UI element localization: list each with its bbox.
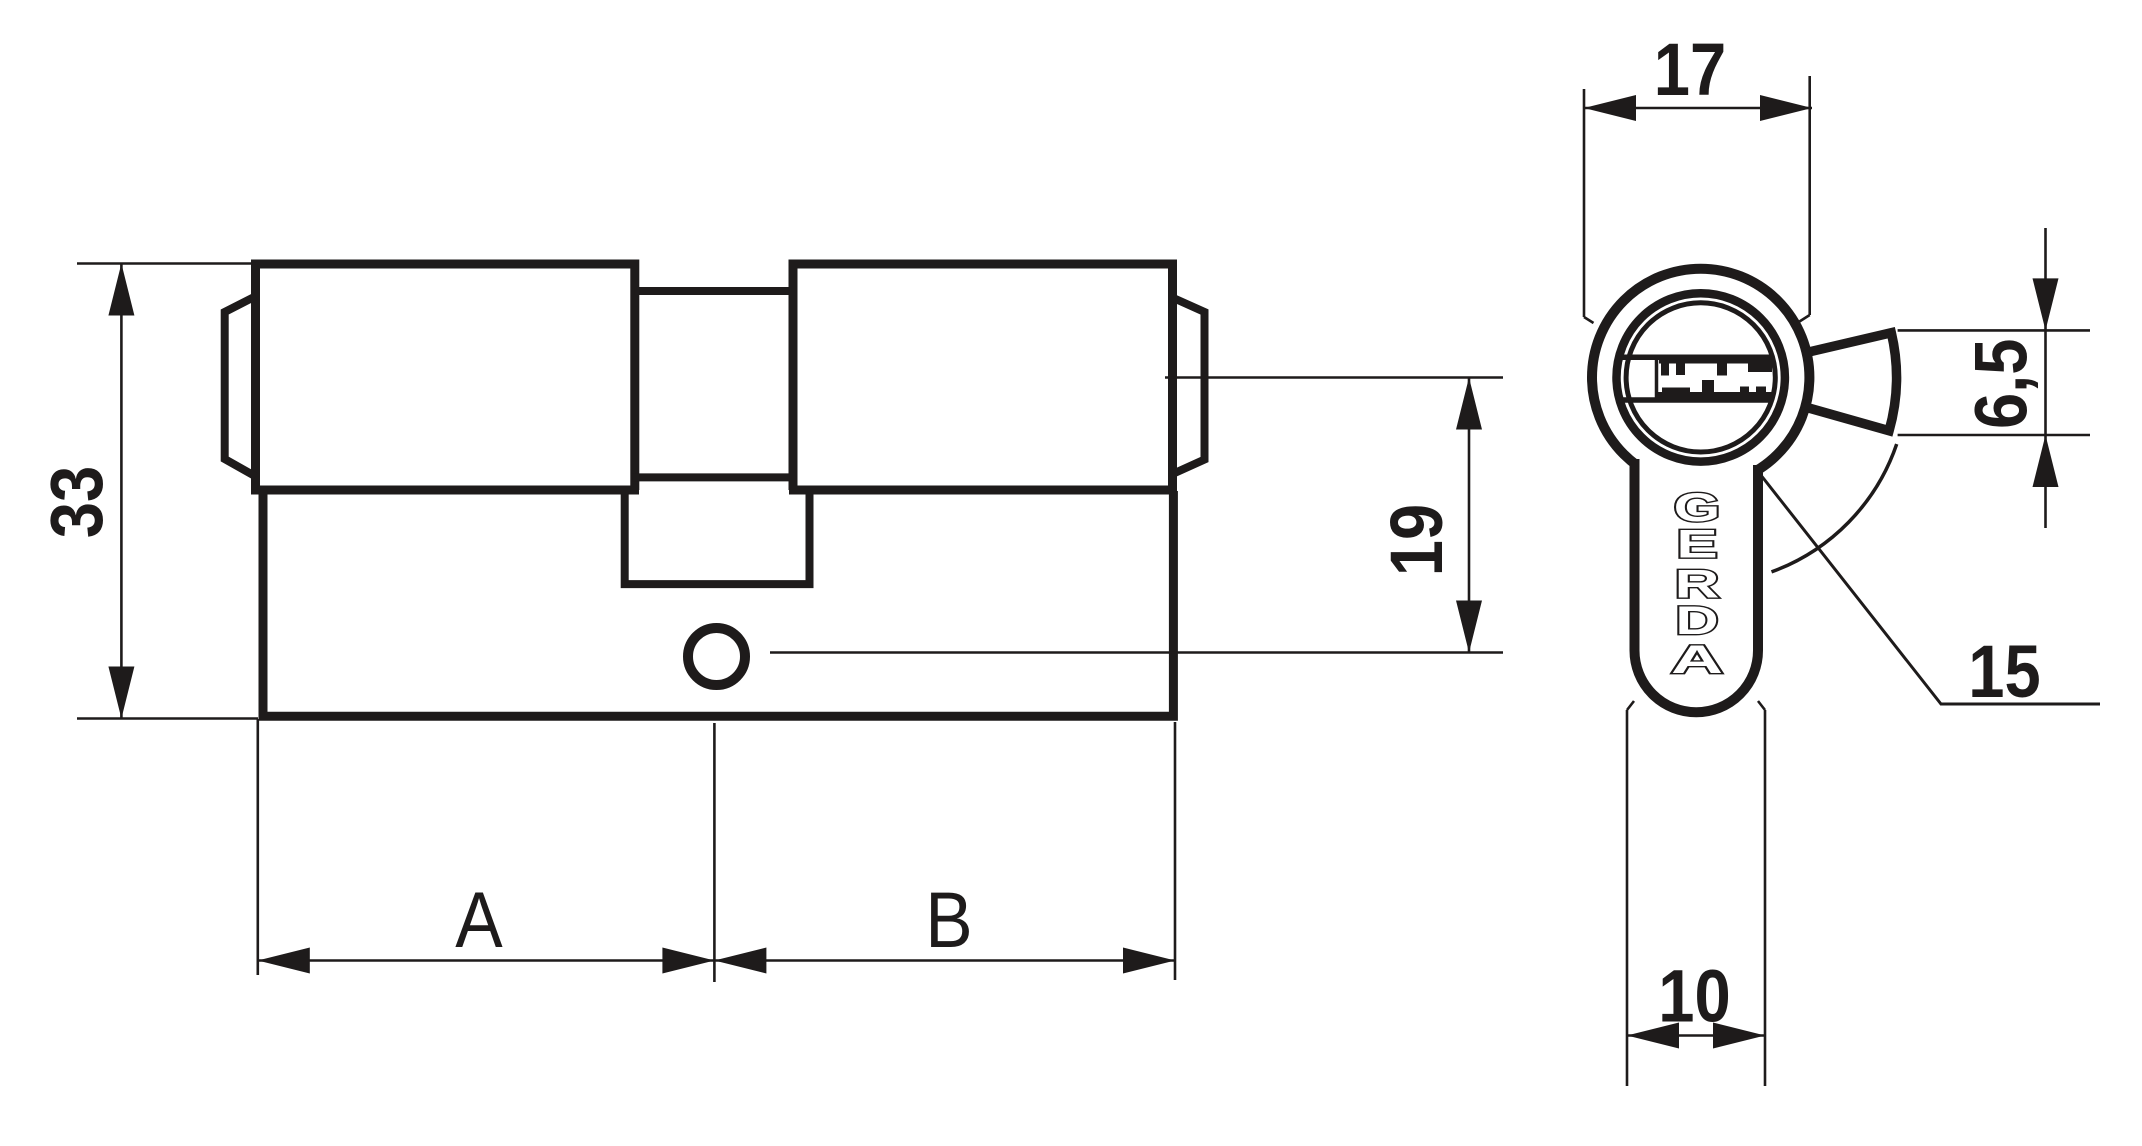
svg-text:10: 10 xyxy=(1658,955,1730,1038)
right bevel tip xyxy=(1173,298,1205,474)
dim 19 top extension line (keyway level) xyxy=(1165,376,1503,379)
dim A line xyxy=(258,959,715,962)
dim 33 top tick line xyxy=(77,262,256,265)
dim B line xyxy=(714,959,1175,962)
ext line middle separator xyxy=(713,723,716,982)
left bevel tip xyxy=(225,296,256,476)
keyway bottom chord xyxy=(1620,397,1772,403)
rotation arc xyxy=(1772,444,1897,572)
dim 10 left extension line xyxy=(1627,701,1634,1086)
svg-text:D: D xyxy=(1675,598,1718,643)
dim 6,5 bottom extension line xyxy=(1898,434,2090,437)
dim 10 right extension line xyxy=(1758,701,1765,1086)
left body block (housing, key side) xyxy=(256,264,635,490)
leader line 15 xyxy=(1760,474,2100,704)
dim 19 vertical line xyxy=(1468,378,1471,653)
dim 17 left extension line xyxy=(1584,89,1594,323)
dim 6,5 vertical line xyxy=(2044,228,2047,528)
dim 6,5 arrows (outside) xyxy=(2033,278,2059,487)
stem (profile lower body) xyxy=(1640,458,1754,707)
cam follower rectangle xyxy=(625,491,810,584)
lower cylinder plate xyxy=(263,491,1173,716)
dim 10 arrows xyxy=(1627,1023,1765,1049)
dim A/B arrows xyxy=(258,948,1175,974)
face plug circle xyxy=(1626,303,1775,452)
screw hole circle xyxy=(688,628,745,685)
svg-text:6,5: 6,5 xyxy=(1960,339,2043,430)
dim 33 arrows xyxy=(108,264,134,719)
bridge bottom line xyxy=(632,473,790,481)
bridge top line xyxy=(635,287,793,295)
svg-text:A: A xyxy=(1671,637,1723,682)
dim 10 line xyxy=(1627,1034,1765,1037)
face outer circle (body) xyxy=(1592,269,1809,486)
dim 17 line xyxy=(1584,107,1812,110)
key profile lower comb xyxy=(1657,380,1772,399)
screw hole leader / dim 19 bottom extension xyxy=(770,651,1503,654)
GERDA logo text xyxy=(1671,485,1723,682)
dim 19 arrows xyxy=(1456,378,1482,653)
dim 17 right extension line xyxy=(1800,76,1810,322)
keyway left wall xyxy=(1655,358,1659,399)
right body block (housing, cam side) xyxy=(793,264,1173,491)
svg-text:33: 33 xyxy=(35,466,118,538)
svg-text:15: 15 xyxy=(1968,630,2040,713)
dim 33 vertical line xyxy=(120,264,123,719)
dim 33 bottom tick line xyxy=(77,717,258,720)
svg-text:17: 17 xyxy=(1654,28,1726,111)
ext line right (B) xyxy=(1174,722,1177,980)
ext line left (A) xyxy=(256,719,259,975)
keyway top chord xyxy=(1618,355,1774,361)
dim 17 arrows xyxy=(1584,95,1812,121)
housing boundary line left segment xyxy=(251,486,639,495)
svg-text:E: E xyxy=(1676,522,1717,566)
svg-text:B: B xyxy=(925,876,972,964)
face middle circle xyxy=(1617,293,1785,461)
housing boundary line right segment xyxy=(789,486,1177,495)
svg-text:19: 19 xyxy=(1375,504,1458,576)
key bow fan (rotated key) xyxy=(1802,333,1897,431)
key profile upper comb xyxy=(1659,359,1772,376)
svg-text:A: A xyxy=(455,876,502,964)
dim 6,5 top extension line xyxy=(1898,329,2090,332)
